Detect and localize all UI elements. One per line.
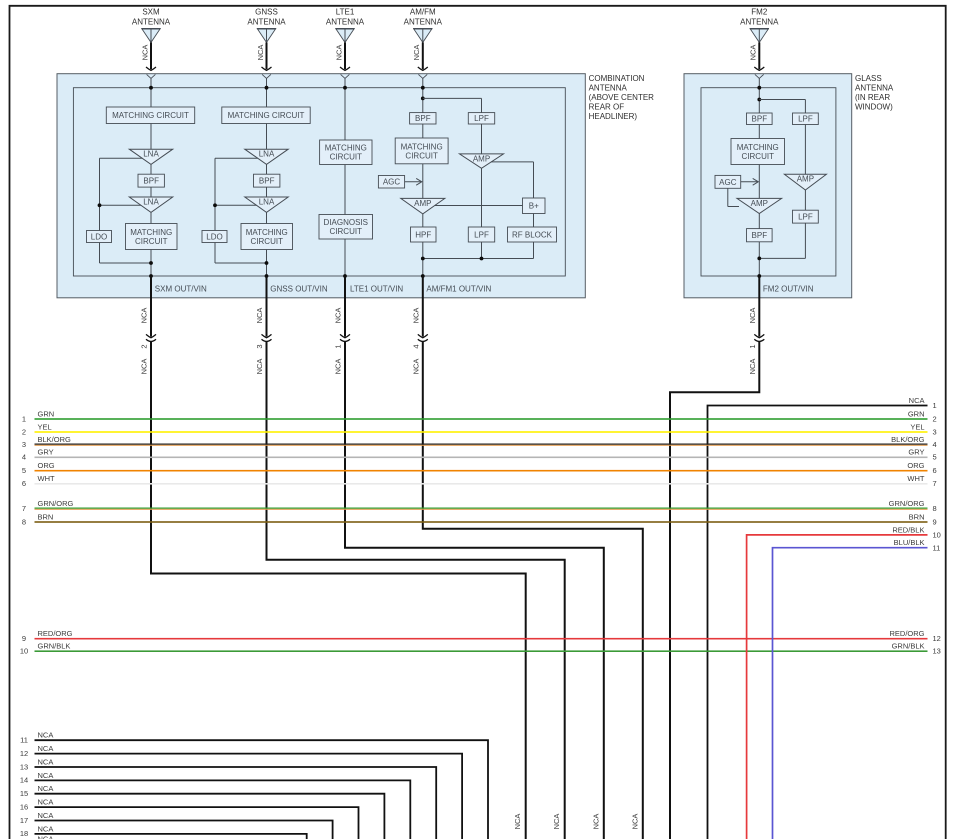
block LDO (SXM OUT/VIN) — [87, 231, 112, 243]
block AGC (FM2) — [715, 175, 741, 188]
svg-text:7: 7 — [933, 479, 937, 488]
arrow into antenna unit — [754, 67, 764, 70]
wire FM2 column vertical — [758, 78, 760, 113]
wire AGC control arrow — [405, 181, 421, 183]
svg-text:8: 8 — [22, 517, 26, 526]
block BPF (SXM OUT/VIN) — [138, 174, 164, 187]
block LPF (FM branch bottom) — [468, 227, 494, 242]
wire WHT group — [22, 474, 937, 488]
svg-text:NCA: NCA — [513, 814, 522, 830]
svg-text:YEL: YEL — [910, 422, 924, 431]
block MATCHING CIRCUIT (AM/FM) — [395, 138, 448, 164]
svg-text:NCA: NCA — [255, 359, 264, 375]
connector notch at unit boundary — [418, 74, 427, 78]
svg-text:MATCHING: MATCHING — [325, 144, 367, 153]
antenna FM2 symbol — [750, 29, 768, 42]
junction node at module input — [343, 86, 347, 90]
wire NCA (left pin 12) — [35, 754, 463, 839]
connector socket SXM OUT — [146, 339, 156, 341]
svg-text:GRN/ORG: GRN/ORG — [889, 499, 925, 508]
NCA stair 18 — [20, 824, 307, 839]
svg-text:B+: B+ — [529, 202, 539, 211]
FM2 column — [715, 78, 826, 293]
wire LTE1 column vertical — [344, 78, 346, 140]
block LPF (FM branch top) — [468, 113, 494, 124]
wire SXM OUT/VIN column vertical — [150, 78, 152, 107]
svg-text:CIRCUIT: CIRCUIT — [135, 237, 168, 246]
svg-text:NCA: NCA — [38, 798, 54, 807]
connector arrow FM2 OUT — [754, 334, 764, 337]
antenna FM2 — [740, 8, 779, 79]
svg-text:CIRCUIT: CIRCUIT — [330, 227, 363, 236]
wire branch to LPF chain — [759, 99, 805, 101]
wire AGC to AMP elbow — [727, 188, 729, 206]
wire BLK/ORG group — [22, 435, 937, 449]
arrow into antenna unit — [146, 67, 156, 70]
junction node on LDO rail — [213, 203, 217, 207]
wire LTE1 OUT drop — [344, 276, 346, 337]
AM/FM column — [378, 78, 556, 293]
NCA stair 11 — [20, 731, 488, 839]
svg-text:BRN: BRN — [38, 512, 54, 521]
wire RED/BLK — [747, 535, 928, 839]
wire output bus — [423, 258, 534, 260]
svg-text:NCA: NCA — [140, 45, 149, 61]
svg-text:ANTENNA: ANTENNA — [404, 18, 443, 27]
block BPF (AM/FM) — [410, 113, 436, 124]
svg-text:AM/FM: AM/FM — [410, 8, 436, 17]
wire LDO supply rail — [215, 157, 258, 159]
wire AGC control arrow — [741, 181, 758, 183]
svg-text:AMP: AMP — [797, 175, 814, 184]
svg-text:BLK/ORG: BLK/ORG — [891, 435, 925, 444]
svg-text:NCA: NCA — [38, 824, 54, 833]
svg-text:ANTENNA: ANTENNA — [132, 18, 171, 27]
connector notch at unit boundary — [262, 74, 271, 78]
svg-text:RED/ORG: RED/ORG — [38, 629, 73, 638]
wire AM/FM column vertical — [422, 78, 424, 112]
glass antenna inner module box — [701, 88, 836, 276]
wire NCA (left pin 17) — [35, 821, 333, 839]
svg-text:WHT: WHT — [907, 474, 924, 483]
svg-text:2: 2 — [22, 427, 26, 436]
wire output bus — [759, 257, 805, 259]
amp LNA 1 (GNSS OUT/VIN) — [245, 149, 288, 164]
svg-text:5: 5 — [933, 453, 937, 462]
block LPF (FM2 branch top) — [793, 113, 819, 125]
svg-text:LDO: LDO — [206, 232, 222, 241]
wire WHT — [35, 483, 928, 485]
wire GRN/BLK — [35, 650, 928, 652]
wire SXM OUT drop — [150, 276, 152, 337]
junction node at module input — [421, 86, 425, 90]
svg-text:NCA: NCA — [334, 45, 343, 61]
GNSS OUT drop group — [255, 276, 565, 839]
wire FM2 branch vertical — [804, 125, 806, 175]
svg-text:GRN: GRN — [908, 409, 925, 418]
block BPF (FM2 bottom) — [747, 229, 773, 242]
svg-text:NCA: NCA — [749, 45, 758, 61]
wire AM/FM1 OUT routing — [423, 341, 643, 839]
svg-text:4: 4 — [22, 453, 26, 462]
svg-text:ANTENNA: ANTENNA — [740, 18, 779, 27]
svg-text:4: 4 — [412, 344, 421, 348]
wire NCA (left pin 15) — [35, 794, 385, 839]
svg-text:HEADLINER): HEADLINER) — [589, 112, 638, 121]
block MATCHING CIRCUIT (GNSS OUT/VIN input) — [222, 107, 310, 124]
wire FM branch vertical — [481, 124, 483, 154]
block AGC (AM/FM) — [378, 176, 404, 189]
junction node at module output — [757, 274, 761, 278]
svg-text:SXM OUT/VIN: SXM OUT/VIN — [155, 285, 207, 294]
svg-text:BRN: BRN — [909, 512, 925, 521]
svg-text:NCA: NCA — [334, 359, 343, 375]
svg-text:1: 1 — [22, 414, 26, 423]
amp LNA 2 (GNSS OUT/VIN) — [245, 197, 288, 212]
junction node at module input — [265, 86, 269, 90]
wire NCA from FM2 antenna — [758, 42, 760, 69]
svg-text:FM2: FM2 — [751, 8, 768, 17]
block MATCHING CIRCUIT (SXM OUT/VIN input) — [106, 107, 194, 124]
svg-text:MATCHING: MATCHING — [246, 228, 288, 237]
svg-text:GNSS OUT/VIN: GNSS OUT/VIN — [270, 285, 328, 294]
antenna SXM — [132, 8, 171, 79]
svg-text:NCA: NCA — [591, 814, 600, 830]
wire NCA (left pin 18) — [35, 834, 307, 839]
junction node output — [757, 257, 761, 261]
wire RED/ORG group — [22, 629, 941, 643]
block MATCHING CIRCUIT (SXM OUT/VIN output) — [126, 224, 178, 250]
combination antenna inner module box — [73, 88, 565, 276]
svg-text:4: 4 — [933, 440, 937, 449]
wire ORG group — [22, 461, 937, 475]
svg-text:GRN/ORG: GRN/ORG — [38, 499, 74, 508]
svg-text:5: 5 — [22, 466, 26, 475]
svg-text:15: 15 — [20, 789, 28, 798]
svg-text:NCA: NCA — [38, 811, 54, 820]
svg-text:1: 1 — [334, 344, 343, 348]
junction node LPF output — [480, 257, 484, 261]
wire GNSS OUT/VIN column vertical — [266, 78, 268, 107]
svg-text:NCA: NCA — [412, 45, 421, 61]
svg-text:3: 3 — [933, 427, 937, 436]
connector arrow GNSS OUT — [262, 334, 272, 337]
block DIAGNOSIS CIRCUIT — [319, 215, 373, 240]
connector arrow AM/FM1 OUT — [418, 334, 428, 337]
wire AMP output to B+ — [435, 205, 523, 207]
junction node at module input — [757, 86, 761, 90]
connector socket LTE1 OUT — [340, 339, 350, 341]
wire GRN — [35, 418, 928, 420]
block BPF (FM2 top) — [747, 113, 773, 125]
svg-text:9: 9 — [22, 634, 26, 643]
svg-text:RED/ORG: RED/ORG — [889, 629, 924, 638]
wire BRN group — [22, 512, 937, 526]
junction node FM2 split — [757, 98, 761, 102]
svg-text:AMP: AMP — [473, 154, 490, 163]
svg-text:NCA: NCA — [334, 308, 343, 324]
GNSS receiver column — [202, 78, 328, 293]
arrow into antenna unit — [340, 67, 350, 70]
svg-text:12: 12 — [20, 749, 28, 758]
svg-text:WHT: WHT — [38, 474, 55, 483]
wire NCA from GNSS antenna — [266, 42, 268, 69]
svg-text:3: 3 — [22, 440, 26, 449]
wire ORG — [35, 470, 928, 472]
wire GRN/ORG — [35, 508, 928, 509]
block HPF — [411, 227, 437, 242]
svg-text:LDO: LDO — [91, 232, 107, 241]
wire GRY — [35, 457, 928, 459]
wire AM/FM1 OUT drop — [422, 276, 424, 337]
amp AMP (FM2) — [737, 198, 782, 213]
svg-text:1: 1 — [748, 344, 757, 348]
wire GRN/BLK group — [20, 642, 941, 656]
svg-text:LPF: LPF — [798, 115, 813, 124]
junction node on LDO rail — [98, 203, 102, 207]
wire B+ to RF BLOCK — [533, 214, 535, 228]
svg-text:LPF: LPF — [474, 114, 489, 123]
svg-text:2: 2 — [933, 414, 937, 423]
antenna LTE1 — [326, 8, 365, 79]
svg-text:REAR OF: REAR OF — [589, 102, 625, 111]
combination antenna unit box — [57, 74, 585, 298]
svg-text:SXM: SXM — [142, 8, 160, 17]
wire BLU/BLK — [773, 548, 928, 839]
LTE1 column — [319, 78, 403, 293]
svg-text:NCA: NCA — [140, 359, 149, 375]
svg-text:BLU/BLK: BLU/BLK — [894, 538, 925, 547]
NCA stair 13 — [20, 757, 436, 839]
svg-text:17: 17 — [20, 816, 28, 825]
antenna LTE1 symbol — [336, 29, 354, 42]
svg-text:NCA: NCA — [38, 771, 54, 780]
block B+ — [523, 198, 546, 214]
arrow into antenna unit — [262, 67, 272, 70]
svg-text:ANTENNA: ANTENNA — [326, 18, 365, 27]
svg-text:LPF: LPF — [798, 213, 813, 222]
connector socket FM2 OUT — [754, 339, 764, 341]
svg-text:MATCHING: MATCHING — [401, 142, 443, 151]
svg-text:NCA: NCA — [255, 308, 264, 324]
LTE1 OUT drop group — [334, 276, 604, 839]
svg-text:AGC: AGC — [383, 178, 401, 187]
svg-text:NCA: NCA — [38, 834, 54, 839]
wire NCA (left pin 16) — [35, 807, 359, 839]
svg-text:AGC: AGC — [719, 178, 737, 187]
svg-text:NCA: NCA — [552, 814, 561, 830]
wire GRY group — [22, 448, 937, 462]
NCA stair 14 — [20, 771, 410, 839]
svg-text:NCA: NCA — [38, 744, 54, 753]
svg-text:ANTENNA: ANTENNA — [855, 83, 894, 92]
block MATCHING CIRCUIT (GNSS OUT/VIN output) — [241, 224, 293, 250]
svg-text:LNA: LNA — [143, 197, 159, 206]
svg-text:NCA: NCA — [909, 396, 925, 405]
NCA stair 16 — [20, 798, 359, 839]
wire NCA (right pin 1) — [708, 406, 928, 839]
svg-text:CIRCUIT: CIRCUIT — [742, 152, 775, 161]
wire LTE1 OUT routing — [345, 341, 604, 839]
wire YEL group — [22, 422, 937, 436]
svg-text:NCA: NCA — [412, 308, 421, 324]
block RF BLOCK — [508, 227, 557, 242]
wire GRN/ORG group — [22, 499, 937, 513]
svg-text:RED/BLK: RED/BLK — [892, 525, 924, 534]
wire GRN group — [22, 409, 937, 423]
wire NCA (left pin 14) — [35, 780, 411, 839]
svg-text:10: 10 — [933, 531, 941, 540]
connector socket AM/FM1 OUT — [418, 339, 428, 341]
svg-text:MATCHING: MATCHING — [737, 143, 779, 152]
svg-text:BPF: BPF — [143, 177, 159, 186]
svg-text:LTE1 OUT/VIN: LTE1 OUT/VIN — [350, 285, 403, 294]
junction node output — [421, 257, 425, 261]
connector arrow SXM OUT — [146, 334, 156, 337]
svg-text:NCA: NCA — [140, 308, 149, 324]
svg-text:DIAGNOSIS: DIAGNOSIS — [324, 218, 368, 227]
amp AMP (FM2 branch) — [784, 174, 826, 190]
svg-text:MATCHING CIRCUIT: MATCHING CIRCUIT — [228, 111, 305, 120]
svg-text:NCA: NCA — [748, 308, 757, 324]
antenna AM/FM symbol — [414, 29, 432, 42]
svg-text:NCA: NCA — [256, 45, 265, 61]
svg-text:LNA: LNA — [259, 150, 275, 159]
FM2 OUT drop group — [670, 276, 764, 839]
svg-text:12: 12 — [933, 634, 941, 643]
svg-text:NCA: NCA — [38, 784, 54, 793]
svg-text:14: 14 — [20, 776, 28, 785]
junction node SXM OUT/VIN output — [149, 261, 153, 265]
svg-text:16: 16 — [20, 802, 28, 811]
wire YEL — [35, 431, 928, 433]
svg-text:WINDOW): WINDOW) — [855, 102, 893, 111]
svg-text:AMP: AMP — [414, 199, 431, 208]
junction node at module output — [149, 274, 153, 278]
block MATCHING CIRCUIT (LTE1) — [320, 140, 372, 165]
AM/FM1 OUT drop group — [412, 276, 643, 839]
svg-text:GLASS: GLASS — [855, 74, 882, 83]
connector notch at unit boundary — [755, 74, 764, 78]
junction node AM/FM split — [421, 97, 425, 101]
svg-text:HPF: HPF — [415, 230, 431, 239]
NCA stair 15 — [20, 784, 385, 839]
connector notch at unit boundary — [147, 74, 156, 78]
svg-text:BPF: BPF — [752, 115, 768, 124]
svg-text:GRN/BLK: GRN/BLK — [38, 642, 71, 651]
svg-text:(IN REAR: (IN REAR — [855, 93, 890, 102]
svg-text:LNA: LNA — [143, 150, 159, 159]
wire LDO supply rail — [100, 157, 143, 159]
svg-text:RF BLOCK: RF BLOCK — [512, 230, 553, 239]
svg-text:1: 1 — [933, 401, 937, 410]
svg-text:(ABOVE CENTER: (ABOVE CENTER — [589, 93, 655, 102]
svg-text:GNSS: GNSS — [255, 8, 278, 17]
junction node at module output — [421, 274, 425, 278]
svg-text:3: 3 — [255, 344, 264, 348]
svg-text:NCA: NCA — [412, 359, 421, 375]
wire NCA from SXM antenna — [150, 42, 152, 69]
svg-text:CIRCUIT: CIRCUIT — [251, 237, 284, 246]
svg-text:GRN/BLK: GRN/BLK — [892, 642, 925, 651]
svg-text:8: 8 — [933, 504, 937, 513]
svg-text:7: 7 — [22, 504, 26, 513]
svg-text:LTE1: LTE1 — [336, 8, 355, 17]
antenna GNSS symbol — [258, 29, 276, 42]
svg-text:BPF: BPF — [415, 114, 431, 123]
amp AMP (FM branch) — [460, 154, 504, 168]
connector notch at unit boundary — [341, 74, 350, 78]
svg-text:LPF: LPF — [474, 230, 489, 239]
svg-text:13: 13 — [933, 647, 941, 656]
svg-text:AM/FM1 OUT/VIN: AM/FM1 OUT/VIN — [426, 285, 491, 294]
antenna AM/FM — [404, 8, 443, 79]
amp LNA 1 (SXM OUT/VIN) — [129, 149, 172, 164]
block LDO (GNSS OUT/VIN) — [202, 231, 227, 243]
NCA stair 12 — [20, 744, 462, 839]
amp AMP (AM/FM) — [401, 198, 445, 214]
junction node at module output — [265, 274, 269, 278]
svg-text:AMP: AMP — [751, 199, 768, 208]
svg-text:MATCHING CIRCUIT: MATCHING CIRCUIT — [112, 111, 189, 120]
wire NCA (left pin 13) — [35, 767, 437, 839]
glass antenna unit box — [684, 74, 852, 298]
svg-text:BPF: BPF — [752, 231, 768, 240]
svg-text:LNA: LNA — [259, 197, 275, 206]
wire NCA (left pin 11) — [35, 740, 489, 839]
wire AMP to B+ feed — [491, 161, 534, 163]
NCA stair 17 — [20, 811, 333, 839]
connector arrow LTE1 OUT — [340, 334, 350, 337]
svg-text:YEL: YEL — [38, 422, 52, 431]
wire SXM OUT routing — [151, 341, 526, 839]
svg-text:18: 18 — [20, 829, 28, 838]
svg-text:CIRCUIT: CIRCUIT — [405, 151, 438, 160]
wire GNSS OUT routing — [267, 341, 565, 839]
junction node GNSS OUT/VIN output — [265, 261, 269, 265]
junction node at module input — [149, 86, 153, 90]
svg-text:6: 6 — [22, 479, 26, 488]
svg-text:11: 11 — [933, 543, 941, 552]
wire FM2 OUT routing — [670, 341, 759, 839]
svg-text:MATCHING: MATCHING — [130, 228, 172, 237]
svg-text:6: 6 — [933, 466, 937, 475]
svg-text:9: 9 — [933, 517, 937, 526]
svg-text:2: 2 — [140, 344, 149, 348]
svg-text:ANTENNA: ANTENNA — [247, 18, 286, 27]
wire branch to LPF chain — [423, 97, 482, 99]
amp LNA 2 (SXM OUT/VIN) — [129, 197, 172, 212]
svg-text:GRY: GRY — [908, 448, 924, 457]
svg-text:GRN: GRN — [38, 409, 55, 418]
svg-text:GRY: GRY — [38, 448, 54, 457]
wire GNSS OUT drop — [266, 276, 268, 337]
block LPF (FM2 branch bottom) — [793, 210, 819, 223]
svg-text:ANTENNA: ANTENNA — [589, 83, 628, 92]
svg-text:NCA: NCA — [748, 359, 757, 375]
wire NCA from LTE1 antenna — [344, 42, 346, 69]
wire RED/ORG — [35, 638, 928, 640]
arrow into antenna unit — [418, 67, 428, 70]
antenna SXM symbol — [142, 29, 160, 42]
wire BRN — [35, 521, 928, 523]
junction node at module output — [343, 274, 347, 278]
svg-text:NCA: NCA — [630, 814, 639, 830]
svg-text:BPF: BPF — [259, 177, 275, 186]
wire NCA from AM/FM antenna — [422, 42, 424, 69]
svg-text:NCA: NCA — [38, 731, 54, 740]
svg-text:10: 10 — [20, 647, 28, 656]
